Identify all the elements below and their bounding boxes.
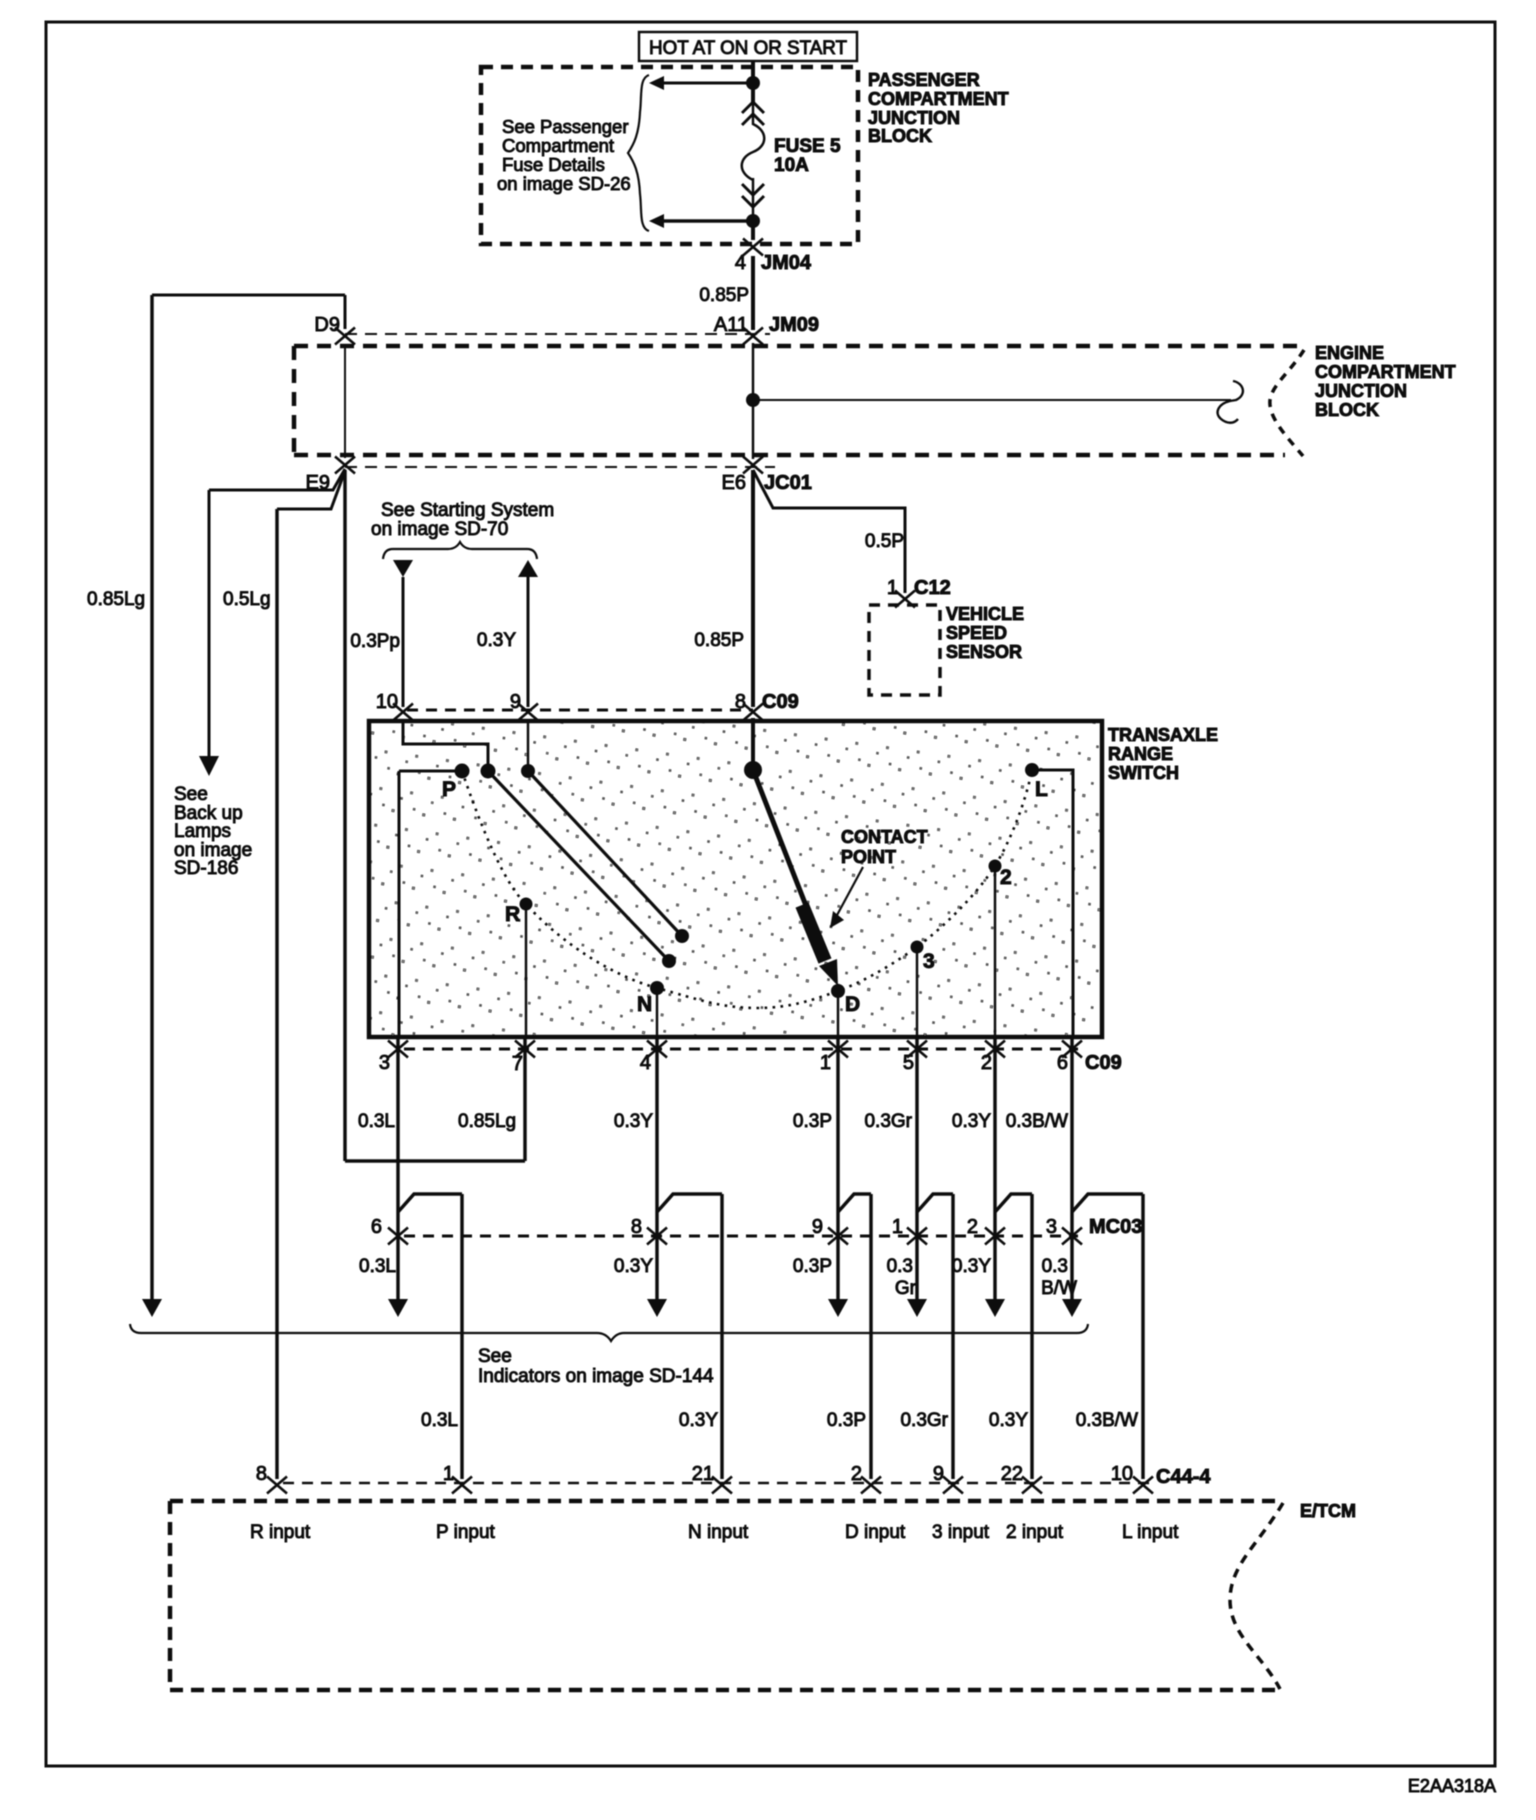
svg-text:0.85Lg: 0.85Lg bbox=[87, 589, 145, 610]
svg-text:0.3P: 0.3P bbox=[793, 1111, 832, 1132]
fuse FUSE 5 10A bbox=[752, 97, 755, 125]
svg-text:L input: L input bbox=[1122, 1522, 1179, 1543]
node junction bottom of fuse bbox=[746, 214, 760, 228]
svg-text:VEHICLE: VEHICLE bbox=[946, 604, 1024, 624]
svg-text:JM09: JM09 bbox=[769, 314, 819, 336]
svg-text:0.3L: 0.3L bbox=[421, 1410, 458, 1431]
svg-text:0.3Y: 0.3Y bbox=[614, 1256, 653, 1277]
wire pin9 to contact bbox=[527, 722, 530, 766]
svg-text:0.85P: 0.85P bbox=[694, 630, 744, 651]
svg-text:R input: R input bbox=[250, 1522, 311, 1543]
svg-text:8: 8 bbox=[735, 691, 746, 713]
wire 0.3P pin1 down bbox=[836, 1037, 840, 1301]
svg-text:8: 8 bbox=[256, 1463, 267, 1485]
svg-text:22: 22 bbox=[1001, 1463, 1023, 1485]
wire 0.85Lg pin7 to E9 bbox=[523, 1037, 527, 1161]
wire pin10 to P-side mover contact bbox=[403, 722, 488, 766]
svg-text:D input: D input bbox=[845, 1522, 906, 1543]
connector MC03 pin 8 bbox=[647, 1228, 667, 1245]
svg-text:10: 10 bbox=[1111, 1463, 1133, 1485]
svg-text:0.3L: 0.3L bbox=[359, 1256, 396, 1277]
contact common (pin 8) bbox=[744, 761, 762, 779]
connector MC03 pin 2 bbox=[985, 1228, 1005, 1245]
contact R bbox=[520, 898, 533, 911]
svg-text:SENSOR: SENSOR bbox=[946, 642, 1022, 662]
wire 0.85Lg from D9 up and left down the page bbox=[344, 295, 347, 329]
svg-text:R: R bbox=[505, 903, 520, 926]
svg-text:4: 4 bbox=[640, 1052, 651, 1074]
svg-text:See Passenger: See Passenger bbox=[502, 116, 629, 137]
contact mover from pin9 bbox=[521, 764, 535, 778]
svg-text:3: 3 bbox=[1046, 1216, 1057, 1238]
svg-text:0.3P: 0.3P bbox=[827, 1410, 866, 1431]
svg-text:0.3Pp: 0.3Pp bbox=[350, 631, 400, 652]
connector C44-4 pin 9 bbox=[943, 1477, 963, 1494]
contact 2 bbox=[989, 860, 1002, 873]
svg-text:See: See bbox=[174, 784, 208, 805]
wire pin8 to common contact bbox=[751, 718, 755, 766]
svg-text:0.5P: 0.5P bbox=[865, 531, 904, 552]
svg-text:0.85P: 0.85P bbox=[699, 285, 749, 306]
svg-text:D9: D9 bbox=[314, 314, 340, 336]
svg-text:1: 1 bbox=[892, 1216, 903, 1238]
wire 0.3Gr pin5 down bbox=[915, 1037, 919, 1301]
brace see passenger fuse details bbox=[628, 75, 649, 231]
wire bypass hook to E/TCM (x=871) bbox=[838, 1194, 871, 1212]
connector C44-4 pin 1 bbox=[452, 1477, 472, 1494]
svg-text:21: 21 bbox=[692, 1463, 714, 1485]
contact point arm (thick, to D) bbox=[753, 770, 826, 957]
svg-text:JC01: JC01 bbox=[764, 472, 812, 494]
svg-text:0.3P: 0.3P bbox=[793, 1256, 832, 1277]
contact D bbox=[831, 984, 845, 998]
svg-text:A11: A11 bbox=[714, 314, 748, 336]
wire 0.3Pp (arrow down from starting system) bbox=[393, 560, 413, 577]
svg-text:E/TCM: E/TCM bbox=[1300, 1501, 1356, 1521]
svg-text:2 input: 2 input bbox=[1006, 1522, 1064, 1543]
wire mover arm (pin10) diagonal bbox=[488, 771, 669, 961]
svg-text:N input: N input bbox=[688, 1522, 749, 1543]
connector MC03 pin 3 bbox=[1062, 1228, 1082, 1245]
svg-text:COMPARTMENT: COMPARTMENT bbox=[1315, 362, 1456, 382]
svg-text:1: 1 bbox=[887, 577, 898, 599]
connector JM04 pin 4 bbox=[743, 239, 763, 256]
contact P bbox=[455, 764, 470, 779]
svg-text:6: 6 bbox=[1057, 1052, 1068, 1074]
E/TCM module (dashed box) bbox=[170, 1499, 1283, 1504]
svg-text:See: See bbox=[478, 1346, 512, 1367]
connector MC03 pin 9 bbox=[828, 1228, 848, 1245]
svg-text:HOT AT ON OR START: HOT AT ON OR START bbox=[649, 38, 847, 59]
connector C44-4 pin 22 bbox=[1022, 1477, 1042, 1494]
svg-text:Gr: Gr bbox=[895, 1278, 917, 1299]
svg-text:C09: C09 bbox=[1085, 1052, 1122, 1074]
wire 0.3B/W pin6 down bbox=[1070, 1037, 1074, 1301]
svg-text:RANGE: RANGE bbox=[1108, 744, 1173, 764]
svg-text:on image SD-70: on image SD-70 bbox=[371, 519, 508, 540]
connector MC03 pin 1 bbox=[907, 1228, 927, 1245]
svg-text:8: 8 bbox=[631, 1216, 642, 1238]
svg-text:on image SD-26: on image SD-26 bbox=[497, 173, 631, 194]
contact 3 bbox=[911, 941, 924, 954]
connector C09 top (pins 10 9 8) bbox=[407, 709, 753, 712]
svg-text:9: 9 bbox=[933, 1463, 944, 1485]
brace over starting system wires bbox=[383, 542, 537, 559]
svg-text:2: 2 bbox=[967, 1216, 978, 1238]
node junction top of fuse bbox=[746, 76, 760, 90]
svg-text:5: 5 bbox=[903, 1052, 914, 1074]
svg-text:3 input: 3 input bbox=[932, 1522, 990, 1543]
wire 0.5Lg branch from E9 bbox=[209, 469, 345, 490]
svg-text:MC03: MC03 bbox=[1089, 1216, 1142, 1238]
wire pin3 riser to P contact bbox=[399, 770, 462, 773]
svg-text:PASSENGER: PASSENGER bbox=[868, 70, 980, 90]
dotted selector arc P-R-N-D-3-2-L bbox=[462, 770, 1032, 1008]
svg-text:See Starting System: See Starting System bbox=[381, 500, 554, 521]
svg-text:D: D bbox=[845, 993, 860, 1016]
vehicle speed sensor (dashed box) bbox=[869, 605, 940, 695]
svg-text:0.3B/W: 0.3B/W bbox=[1076, 1410, 1138, 1431]
connector MC03 (pins 6 8 9 1 2 3) bbox=[404, 1235, 1078, 1238]
svg-text:7: 7 bbox=[512, 1053, 523, 1075]
svg-text:P: P bbox=[442, 778, 456, 801]
wire branch to fuse details (top) bbox=[663, 82, 753, 85]
svg-text:0.3Y: 0.3Y bbox=[989, 1410, 1028, 1431]
svg-text:2: 2 bbox=[851, 1463, 862, 1485]
svg-text:0.3: 0.3 bbox=[1042, 1256, 1068, 1277]
svg-text:0.85Lg: 0.85Lg bbox=[458, 1111, 516, 1132]
wire branch to fuse details (bottom) bbox=[663, 219, 753, 223]
svg-text:6: 6 bbox=[371, 1216, 382, 1238]
wire bypass hook to E/TCM (x=722) bbox=[657, 1194, 722, 1212]
svg-text:0.3L: 0.3L bbox=[358, 1111, 395, 1132]
svg-text:P input: P input bbox=[436, 1522, 496, 1543]
svg-text:0.3Y: 0.3Y bbox=[679, 1410, 718, 1431]
svg-text:10A: 10A bbox=[774, 155, 809, 176]
node junction to relay coil stub bbox=[746, 393, 760, 407]
svg-text:0.3Y: 0.3Y bbox=[952, 1111, 991, 1132]
svg-text:Fuse Details: Fuse Details bbox=[502, 154, 605, 175]
transaxle range switch box bbox=[369, 721, 1102, 1037]
svg-text:1: 1 bbox=[820, 1052, 831, 1074]
svg-text:JUNCTION: JUNCTION bbox=[868, 108, 960, 128]
wire bypass hook to E/TCM (x=462) bbox=[398, 1194, 462, 1212]
svg-text:B/W: B/W bbox=[1041, 1278, 1077, 1299]
arrow to back up lamps bbox=[199, 756, 219, 776]
svg-text:C09: C09 bbox=[762, 691, 799, 713]
svg-text:N: N bbox=[637, 993, 652, 1016]
wire stub with curl (continues in block) bbox=[753, 399, 1231, 401]
passenger compartment junction block (dashed) bbox=[481, 67, 858, 244]
contact mover from pin10 bbox=[481, 764, 496, 779]
wire bypass hook to E/TCM (x=1032) bbox=[995, 1194, 1032, 1212]
svg-text:POINT: POINT bbox=[841, 847, 896, 867]
wire bypass hook to E/TCM (x=1143) bbox=[1072, 1194, 1143, 1212]
contact L bbox=[1025, 763, 1039, 777]
connector JC01 pin E6 bbox=[345, 466, 775, 468]
wire 0.5P branch to vehicle speed sensor bbox=[753, 470, 905, 593]
svg-text:FUSE 5: FUSE 5 bbox=[774, 136, 841, 157]
wire 0.3Y pin2 down bbox=[993, 1037, 997, 1301]
svg-text:L: L bbox=[1035, 778, 1048, 801]
connector MC03 pin 6 bbox=[388, 1228, 408, 1245]
wire 0.3L pin3 down bbox=[396, 1037, 400, 1301]
svg-text:0.3B/W: 0.3B/W bbox=[1006, 1111, 1068, 1132]
svg-text:Lamps: Lamps bbox=[174, 821, 231, 842]
svg-text:3: 3 bbox=[379, 1052, 390, 1074]
svg-text:4: 4 bbox=[735, 252, 746, 274]
wire inside engine block bbox=[752, 343, 755, 459]
wire 0.3Y (arrow up to starting system) bbox=[518, 560, 538, 577]
arrow 0.85Lg to indicators bbox=[142, 1299, 162, 1317]
svg-text:1: 1 bbox=[443, 1463, 454, 1485]
svg-text:E2AA318A: E2AA318A bbox=[1408, 1776, 1496, 1796]
connector C09 bottom (pins 3 7 4 1 5 2 6) bbox=[404, 1048, 1078, 1051]
node HOT AT ON OR START bbox=[639, 32, 857, 61]
svg-text:COMPARTMENT: COMPARTMENT bbox=[868, 89, 1009, 109]
svg-text:BLOCK: BLOCK bbox=[868, 126, 932, 146]
svg-text:0.3Gr: 0.3Gr bbox=[864, 1111, 912, 1132]
svg-text:3: 3 bbox=[923, 950, 935, 973]
svg-text:10: 10 bbox=[376, 691, 398, 713]
wire 0.3Y pin4 down bbox=[655, 1037, 659, 1301]
svg-text:E6: E6 bbox=[722, 472, 746, 494]
svg-text:ENGINE: ENGINE bbox=[1315, 343, 1384, 363]
connector C44-4 pin 2 bbox=[861, 1477, 881, 1494]
wire bypass hook to E/TCM (x=953) bbox=[917, 1194, 953, 1212]
connector C44-4 (pins 8 1 21 2 9 22 10) bbox=[283, 1482, 1150, 1485]
connector C44-4 pin 10 bbox=[1133, 1477, 1153, 1494]
wire 0.85P from JC01 to switch pin 8 bbox=[751, 470, 755, 707]
svg-text:0.3Y: 0.3Y bbox=[952, 1256, 991, 1277]
contact N bbox=[650, 981, 664, 995]
svg-text:SWITCH: SWITCH bbox=[1108, 763, 1179, 783]
wire mover arm (pin9) diagonal bbox=[528, 771, 682, 936]
svg-text:9: 9 bbox=[812, 1216, 823, 1238]
svg-text:BLOCK: BLOCK bbox=[1315, 400, 1379, 420]
engine compartment junction block (dashed) bbox=[345, 333, 770, 335]
svg-text:0.5Lg: 0.5Lg bbox=[223, 589, 271, 610]
connector C44-4 pin 8 bbox=[267, 1477, 287, 1494]
svg-text:0.3Gr: 0.3Gr bbox=[900, 1410, 948, 1431]
arrows to indicators bbox=[388, 1299, 408, 1317]
svg-text:0.3Y: 0.3Y bbox=[614, 1111, 653, 1132]
svg-text:SD-186: SD-186 bbox=[174, 858, 238, 879]
wire main feed from HOT box bbox=[751, 61, 755, 104]
svg-text:2: 2 bbox=[1000, 866, 1012, 889]
svg-text:Compartment: Compartment bbox=[502, 135, 614, 156]
wire D9-E9 inside engine block bbox=[344, 344, 346, 458]
brace see indicators bbox=[130, 1324, 1088, 1341]
svg-text:0.3Y: 0.3Y bbox=[477, 630, 516, 651]
wire R-input branch from E9 bbox=[277, 471, 345, 509]
svg-text:9: 9 bbox=[510, 691, 521, 713]
connector C44-4 pin 21 bbox=[712, 1477, 732, 1494]
svg-text:SPEED: SPEED bbox=[946, 623, 1007, 643]
svg-text:TRANSAXLE: TRANSAXLE bbox=[1108, 725, 1218, 745]
svg-text:2: 2 bbox=[981, 1052, 992, 1074]
svg-text:Indicators on image SD-144: Indicators on image SD-144 bbox=[478, 1366, 714, 1387]
svg-text:0.3: 0.3 bbox=[887, 1256, 913, 1277]
svg-text:JM04: JM04 bbox=[761, 252, 812, 274]
wire 0.85P to JM09 bbox=[751, 256, 755, 330]
svg-text:CONTACT: CONTACT bbox=[841, 827, 928, 847]
svg-text:C44-4: C44-4 bbox=[1156, 1466, 1211, 1488]
svg-text:JUNCTION: JUNCTION bbox=[1315, 381, 1407, 401]
svg-text:C12: C12 bbox=[914, 577, 951, 599]
